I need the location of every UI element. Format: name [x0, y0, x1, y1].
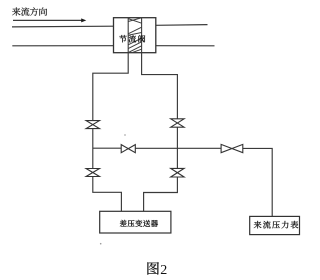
svg-text:2: 2 [160, 263, 167, 278]
